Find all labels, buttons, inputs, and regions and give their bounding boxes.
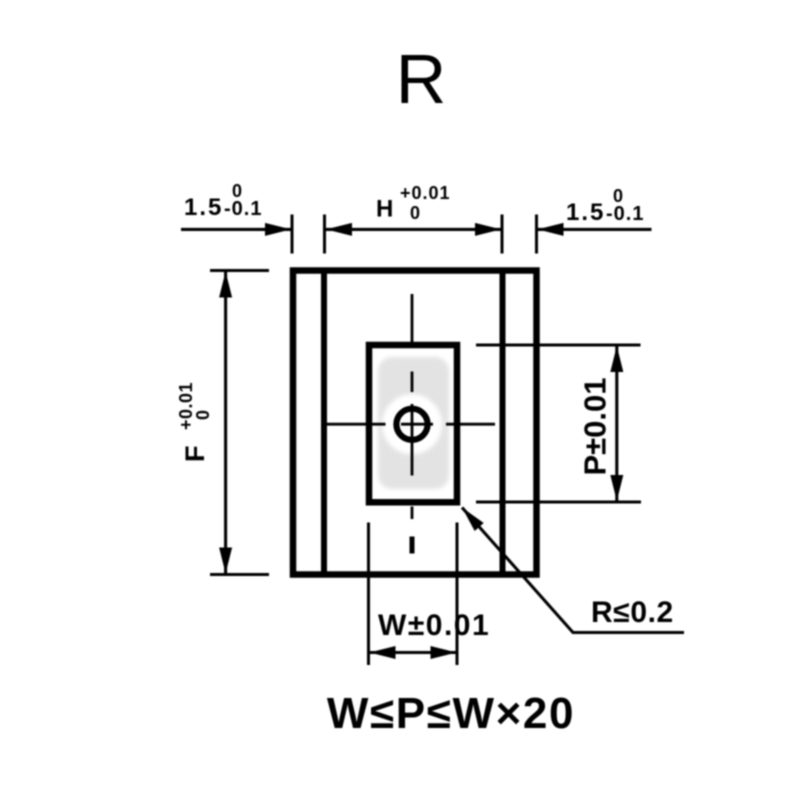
svg-text:W±0.01: W±0.01	[378, 609, 490, 642]
extension tick F top	[210, 269, 269, 272]
dimension line P	[615, 345, 618, 502]
svg-text:0: 0	[193, 410, 213, 420]
arrow H left	[326, 223, 352, 236]
inner left wall line	[321, 272, 327, 573]
label 1.5 left	[184, 181, 262, 221]
vertical centerline bold dash	[410, 537, 415, 554]
arrow W left	[370, 646, 396, 659]
svg-text:P±0.01: P±0.01	[578, 377, 613, 475]
arrow P top	[610, 346, 623, 372]
arrow W right	[431, 646, 457, 659]
svg-text:W≤P≤W×20: W≤P≤W×20	[327, 689, 575, 738]
extension tick outer-right	[535, 215, 538, 254]
extension tick inner-left	[323, 215, 326, 254]
dimension line H	[325, 228, 503, 231]
svg-text:0: 0	[613, 186, 623, 206]
arrow F top	[219, 272, 232, 298]
svg-text:+0.01: +0.01	[176, 382, 196, 430]
label F	[176, 382, 213, 462]
svg-text:1.5: 1.5	[566, 199, 605, 226]
vertical centerline below slot	[411, 507, 414, 520]
svg-text:H: H	[376, 196, 393, 223]
extension line P bottom	[476, 501, 641, 504]
vertical centerline dash inside slot	[411, 372, 414, 393]
horizontal centerline right segment	[446, 423, 495, 426]
leader line R	[462, 508, 684, 633]
dimension line F	[224, 271, 227, 575]
slot rectangle	[369, 345, 457, 502]
svg-text:1.5: 1.5	[184, 194, 223, 221]
svg-text:-0.1: -0.1	[224, 198, 262, 220]
arrow 1.5 left	[265, 223, 291, 236]
arrow 1.5 right	[538, 223, 564, 236]
slot interior glow	[378, 357, 449, 489]
label H	[376, 183, 451, 223]
extension line P top	[476, 344, 641, 347]
dimension line W	[369, 651, 458, 654]
extension tick F bottom	[210, 573, 269, 576]
arrow H right	[475, 223, 501, 236]
svg-text:+0.01: +0.01	[400, 183, 451, 203]
svg-text:-0.1: -0.1	[606, 203, 644, 225]
horizontal centerline through circle	[401, 423, 433, 426]
svg-text:0: 0	[232, 181, 242, 201]
svg-text:0: 0	[410, 203, 420, 223]
center hole circle	[396, 409, 427, 440]
label P	[578, 377, 613, 475]
svg-text:F: F	[180, 446, 210, 463]
inner right wall line	[500, 272, 506, 573]
label 1.5 right	[566, 186, 644, 226]
extension line W right	[456, 523, 459, 666]
arrow F bottom	[219, 548, 232, 574]
dimension line 1.5 right	[537, 228, 652, 231]
svg-text:R≤0.2: R≤0.2	[591, 596, 674, 629]
outer body rectangle	[293, 271, 537, 575]
leader arrow	[462, 508, 484, 532]
vertical centerline through circle	[411, 404, 414, 476]
vertical centerline above slot	[411, 294, 414, 346]
arrow P bottom	[610, 475, 623, 501]
horizontal centerline left segment	[327, 423, 386, 426]
extension tick inner-right	[501, 215, 504, 254]
extension tick outer-left	[291, 215, 294, 254]
dimension line 1.5 left	[181, 228, 292, 231]
extension line W left	[367, 523, 370, 666]
svg-text:R: R	[396, 40, 447, 118]
